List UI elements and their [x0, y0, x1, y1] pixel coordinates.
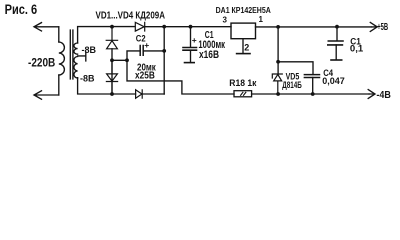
svg-text:-220В: -220В — [28, 58, 55, 70]
wire zener column — [277, 27, 279, 74]
wire top bus middle — [145, 26, 231, 28]
capacitor C3 top lead — [336, 27, 338, 41]
svg-text:-4В: -4В — [376, 90, 391, 102]
svg-text:х25В: х25В — [135, 71, 155, 82]
ground bar C3 — [331, 59, 342, 61]
node junction C2 right column top — [162, 25, 166, 29]
capacitor C1 lead top — [190, 27, 192, 48]
node junction C2 left — [125, 58, 129, 62]
resistor R18 — [234, 91, 252, 97]
svg-text:0,047: 0,047 — [322, 76, 345, 87]
diode VD1 upper left column — [106, 27, 117, 49]
node junction C2 right — [162, 49, 166, 53]
node junction C4 bottom — [311, 92, 315, 96]
output arrow +5В — [370, 22, 377, 31]
svg-text:R18 1к: R18 1к — [229, 78, 256, 89]
svg-text:+: + — [192, 35, 197, 45]
capacitor C3 plates — [328, 41, 343, 45]
wire vertical C2 right column — [163, 27, 165, 94]
zener VD5 — [272, 74, 282, 94]
wire secondary top lead to top bus — [78, 27, 135, 43]
wire C4 top lead — [278, 62, 313, 75]
wire bottom bus right — [252, 93, 370, 95]
node junction C1 top — [189, 25, 193, 29]
capacitor C1 plates — [183, 48, 197, 51]
svg-text:3: 3 — [223, 15, 228, 24]
wire node A to C2 left — [112, 59, 127, 61]
transformer secondary winding upper — [74, 43, 78, 54]
regulator DA1 box — [231, 23, 256, 39]
node A junction — [110, 58, 114, 62]
svg-text:1: 1 — [259, 15, 264, 24]
wire VD column middle — [111, 49, 113, 94]
ground bar C1 — [185, 62, 195, 64]
svg-text:VD1...VD4 КД209А: VD1...VD4 КД209А — [96, 10, 166, 21]
wire primary bottom lead — [58, 75, 60, 95]
svg-text:+5В: +5В — [377, 20, 388, 32]
transformer secondary winding lower — [74, 57, 78, 79]
capacitor C2 plates — [140, 46, 143, 56]
diode VD4 bottom bus — [136, 90, 143, 99]
svg-text:-8В: -8В — [82, 45, 97, 55]
svg-text:DA1 КР142ЕН5А: DA1 КР142ЕН5А — [216, 5, 272, 15]
wire bottom bus left — [78, 78, 136, 94]
wire bottom bus after VD4 — [142, 93, 164, 95]
node junction zener top / C4 — [276, 60, 280, 64]
wire primary top lead — [58, 27, 60, 42]
transformer T1 primary winding — [59, 42, 65, 75]
node junction top of VD column — [110, 25, 114, 29]
capacitor C3 bottom lead — [335, 45, 337, 60]
transformer core — [70, 30, 73, 79]
node junction zener bottom — [276, 92, 280, 96]
mains input arrow bottom — [34, 91, 59, 99]
pin 2 stub — [242, 39, 244, 54]
capacitor C4 bottom lead — [312, 78, 314, 95]
svg-text:2: 2 — [244, 43, 249, 53]
svg-text:+: + — [144, 40, 149, 50]
capacitor C4 plates — [304, 75, 319, 78]
wire jog node A down and right — [127, 60, 234, 94]
node junction bottom VD column — [110, 92, 114, 96]
mains input arrow top — [34, 23, 59, 31]
node junction C3 top — [335, 25, 339, 29]
svg-text:0,1: 0,1 — [350, 43, 363, 53]
svg-text:х16В: х16В — [199, 49, 219, 61]
wire DA1 output — [256, 26, 372, 28]
diode VD3 lower left column — [106, 60, 117, 94]
svg-text:Д814Б: Д814Б — [282, 80, 302, 90]
svg-text:Рис. 6: Рис. 6 — [5, 2, 38, 17]
resistor R18 power slashes — [241, 92, 246, 95]
svg-text:-8В: -8В — [80, 73, 95, 83]
ground bar DA1 pin 2 — [237, 53, 250, 55]
diode VD2 top bus — [135, 22, 144, 31]
node junction DA1 output — [276, 25, 280, 29]
capacitor C2 leads — [127, 51, 164, 60]
capacitor C1 lead bottom — [190, 50, 192, 62]
secondary center tap stub — [78, 52, 86, 61]
output arrow -4В — [368, 90, 375, 99]
